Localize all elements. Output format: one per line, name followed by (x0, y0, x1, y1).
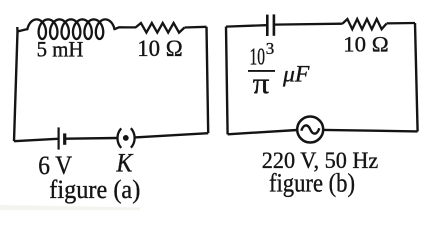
svg-text:K: K (115, 149, 133, 178)
svg-text:μF: μF (282, 61, 310, 86)
fraction bar (248, 70, 275, 72)
capacitor C right plate (273, 14, 276, 35)
wire top left figure b (226, 25, 266, 26)
wire capacitor to resistor figure b (274, 23, 343, 26)
wire bottom right figure b (323, 130, 417, 132)
faint scan streak (0, 205, 140, 210)
svg-text:10 Ω: 10 Ω (137, 36, 183, 61)
svg-text:3: 3 (266, 39, 275, 58)
key dot (123, 135, 129, 141)
resistor R1 10 ohm figure a (136, 23, 185, 33)
key K right paren (131, 128, 135, 148)
wire battery to bottom left corner figure a (14, 139, 58, 141)
svg-text:figure (b): figure (b) (269, 169, 355, 198)
battery 6V long plate (57, 127, 59, 149)
svg-text:π: π (253, 67, 270, 100)
AC source circle (297, 117, 323, 143)
key K left paren (117, 128, 121, 148)
resistor R2 10 ohm figure b (343, 19, 387, 29)
AC source sine wave (301, 125, 319, 133)
wire resistor to top right corner figure a (185, 26, 207, 29)
svg-text:10 Ω: 10 Ω (343, 32, 389, 57)
battery 6V short plate (63, 133, 66, 144)
svg-text:figure (a): figure (a) (49, 175, 140, 204)
inductor L 5 mH (18, 19, 137, 39)
wire right side figure a (207, 27, 209, 133)
wire left side figure b (226, 27, 228, 135)
capacitor C left plate (266, 15, 269, 36)
wire bottom right figure a (135, 133, 208, 137)
wire resistor to top right corner figure b (387, 22, 416, 25)
wire left side figure a (14, 27, 18, 141)
wire AC source to bottom left corner figure b (228, 130, 298, 134)
svg-text:5 mH: 5 mH (37, 37, 84, 62)
wire right side figure b (415, 23, 418, 131)
wire key to battery (66, 137, 117, 140)
